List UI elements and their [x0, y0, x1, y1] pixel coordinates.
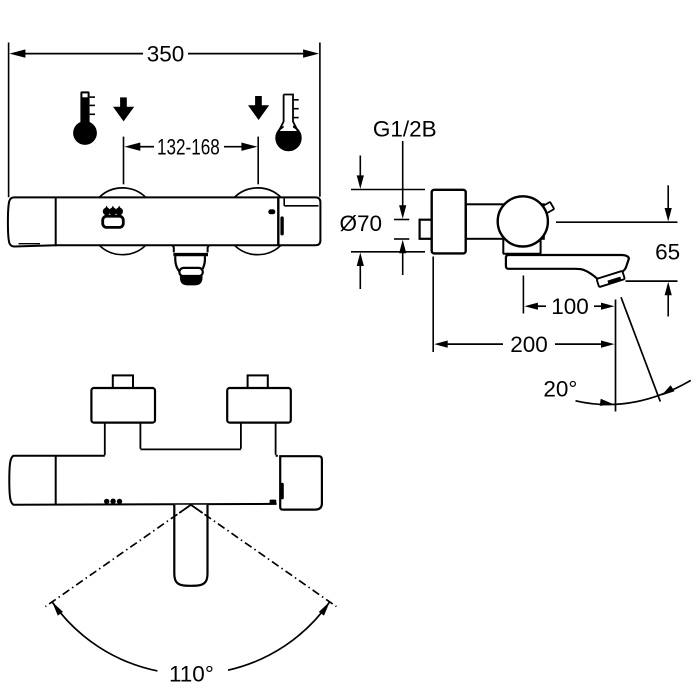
body edge between unions (plan)	[140, 448, 241, 450]
svg-text:100: 100	[551, 294, 589, 319]
dimension 350 extension line right	[319, 43, 321, 197]
wall union right small square (plan)	[248, 375, 268, 388]
escutcheon circle left (front view)	[89, 188, 156, 255]
inlet connector G1/2B (side view)	[420, 220, 433, 239]
spout bell (front view)	[173, 253, 208, 256]
lever handle box (plan)	[280, 456, 322, 509]
dimension 65 arrow up	[665, 282, 672, 296]
marker dots right	[268, 209, 275, 214]
neck lines right union	[241, 423, 276, 455]
wall union left body (plan)	[91, 388, 155, 423]
thermostat knob circle (side view)	[498, 196, 548, 246]
dimension 100 extension line	[522, 276, 524, 314]
swivel axis dash-dot right	[191, 505, 337, 607]
dimension 200 extension line	[432, 257, 434, 353]
diameter 70 arrow down	[359, 156, 361, 177]
dimension 100 line	[537, 305, 546, 307]
svg-text:65: 65	[655, 239, 680, 264]
dimension 65 reference line bottom	[626, 280, 678, 282]
left box inner bottom line	[19, 243, 41, 245]
diameter 70 reference line bottom	[351, 251, 425, 253]
svg-text:20°: 20°	[543, 377, 577, 402]
lever slot (front view)	[280, 216, 283, 235]
angle 110 arc	[52, 602, 330, 671]
spout (side view)	[506, 255, 629, 281]
eco button	[103, 216, 124, 227]
marker square (plan)	[270, 500, 277, 505]
wall union right body (plan)	[227, 388, 291, 423]
G1/2B leader arrow down	[402, 141, 404, 206]
G1/2B tick bottom	[394, 238, 409, 240]
aerator (side view)	[597, 271, 625, 287]
wall escutcheon (side view)	[432, 190, 466, 254]
spout collar (front view)	[172, 246, 209, 253]
dimension 65 reference line top	[556, 221, 678, 223]
handle divider left	[55, 197, 57, 246]
svg-text:Ø70: Ø70	[340, 211, 383, 236]
dimension 350 extension line left	[8, 43, 10, 198]
wall union left small square (plan)	[113, 375, 133, 388]
G1/2B tick top	[394, 219, 409, 221]
escutcheon circle right (front view)	[224, 188, 291, 255]
svg-text:350: 350	[147, 42, 185, 67]
dimension 65 arrow down	[667, 185, 669, 209]
body tube (side view)	[466, 204, 544, 239]
lever slot (plan)	[281, 483, 284, 500]
vertical reference through outlet	[615, 300, 617, 412]
handle divider right	[277, 197, 279, 245]
dimension 132-168 extension line right	[257, 137, 259, 185]
dimension 200 line	[447, 343, 503, 345]
dimension 350 line	[25, 53, 143, 55]
safety button nub	[539, 202, 554, 216]
thermometer cold icon	[276, 126, 301, 151]
swivel spout (plan view)	[174, 505, 207, 586]
diameter 70 arrow up	[357, 253, 364, 267]
spout angle slant line	[621, 297, 660, 401]
dimension 132-168 extension line left	[123, 137, 125, 185]
cold position arrow (down)	[248, 96, 269, 120]
dimension 132-168 line	[139, 146, 154, 148]
G1/2B arrow up	[399, 240, 406, 254]
eco dots icon	[103, 206, 123, 216]
right handle step	[283, 198, 285, 205]
swivel axis solid start segments	[179, 505, 202, 513]
angle 20 arc	[576, 380, 691, 404]
neck lines left union	[105, 423, 141, 456]
svg-text:132-168: 132-168	[157, 135, 220, 160]
thermometer hot icon	[73, 91, 97, 144]
hot position arrow (down)	[113, 97, 134, 121]
svg-text:200: 200	[510, 332, 548, 357]
svg-text:110°: 110°	[169, 662, 214, 687]
handle divider left (plan)	[55, 456, 57, 505]
swivel axis dash-dot left	[45, 505, 191, 607]
body bar (plan view)	[9, 456, 278, 505]
mixer body bar (front view)	[8, 197, 321, 246]
svg-text:G1/2B: G1/2B	[373, 116, 437, 141]
spout aerator ring (front view)	[179, 268, 202, 276]
eco dots edge-on (plan)	[104, 499, 122, 505]
diameter 70 reference line top	[351, 189, 425, 191]
knob pedestal	[503, 237, 541, 254]
spout outlet dark (front view)	[180, 275, 203, 286]
